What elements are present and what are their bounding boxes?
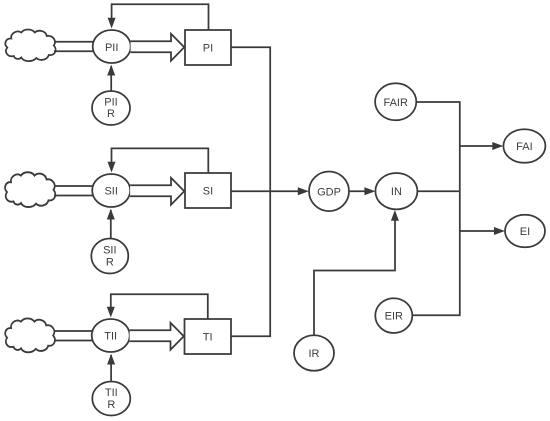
arrowhead into SII bottom <box>107 209 115 220</box>
svg-text:SII: SII <box>103 245 116 257</box>
arrowhead into FAI <box>492 142 503 150</box>
svg-text:PII: PII <box>104 96 117 108</box>
feedback TI to TII <box>111 294 208 319</box>
svg-text:FAI: FAI <box>516 141 533 153</box>
arrowhead into EI <box>494 227 505 235</box>
svg-text:SI: SI <box>203 186 213 198</box>
stock PI <box>185 30 231 65</box>
wire FAIR to right bus <box>412 102 460 315</box>
auxiliary EI <box>505 215 545 248</box>
svg-text:R: R <box>106 257 114 269</box>
svg-text:R: R <box>107 399 115 411</box>
auxiliary IN <box>375 173 417 209</box>
rate SII R <box>91 239 128 274</box>
rate TII R <box>92 382 130 416</box>
hollow flow arrow SII to SI <box>130 178 184 205</box>
svg-text:TII: TII <box>104 331 117 343</box>
cloud source row1 <box>5 30 55 62</box>
svg-text:EI: EI <box>520 226 530 238</box>
auxiliary FAIR <box>375 83 416 120</box>
hollow flow arrow TII to TI <box>130 323 184 350</box>
svg-text:GDP: GDP <box>317 186 341 198</box>
level variable SII <box>92 174 130 207</box>
cloud source row2 <box>5 172 55 207</box>
svg-text:SII: SII <box>104 186 117 198</box>
flow pipe cloud to SII <box>54 186 93 196</box>
stock TI <box>185 319 232 354</box>
wire bus to EI <box>460 230 500 232</box>
svg-text:R: R <box>107 108 115 120</box>
hollow flow arrow PII to PI <box>131 34 185 61</box>
wire SII R to SII <box>110 210 112 239</box>
flow pipe cloud to PII <box>54 42 93 52</box>
wire TII R to TII <box>110 355 112 382</box>
svg-text:PI: PI <box>203 43 213 55</box>
wire PI output to bus <box>231 47 270 336</box>
auxiliary FAI <box>503 129 545 163</box>
auxiliary EIR <box>375 298 412 333</box>
arrowhead into SII top <box>108 162 116 173</box>
auxiliary GDP <box>309 172 349 212</box>
feedback SI to SII <box>112 148 209 173</box>
wire PII R to PII <box>110 66 112 91</box>
auxiliary IR <box>294 335 334 371</box>
level variable TII <box>92 319 130 352</box>
flow pipe cloud to TII <box>54 331 92 341</box>
wire IR to IN <box>314 215 395 335</box>
arrowhead into TII bottom <box>107 354 115 365</box>
stock SI <box>185 173 231 208</box>
arrowhead into PII bottom <box>107 65 115 76</box>
svg-text:TI: TI <box>203 332 213 344</box>
rate PII R <box>92 91 130 125</box>
wire SI to GDP <box>231 190 303 192</box>
svg-text:PII: PII <box>105 42 118 54</box>
arrowhead into IN bottom <box>391 210 399 221</box>
svg-text:FAIR: FAIR <box>383 97 408 109</box>
arrowhead into IN <box>364 187 375 195</box>
svg-text:TII: TII <box>105 387 118 399</box>
wire IN to right bus <box>417 190 459 192</box>
arrowhead into TII top <box>107 307 115 318</box>
wire bus to FAI <box>460 145 498 147</box>
cloud source row3 <box>5 318 55 352</box>
arrowhead into GDP <box>298 187 309 195</box>
svg-text:IN: IN <box>391 186 402 198</box>
level variable PII <box>93 30 131 63</box>
feedback PI to PII <box>112 4 209 30</box>
arrowhead into PII top <box>108 18 116 29</box>
svg-text:EIR: EIR <box>385 311 403 323</box>
svg-text:IR: IR <box>309 348 320 360</box>
wire GDP to IN <box>349 190 370 192</box>
